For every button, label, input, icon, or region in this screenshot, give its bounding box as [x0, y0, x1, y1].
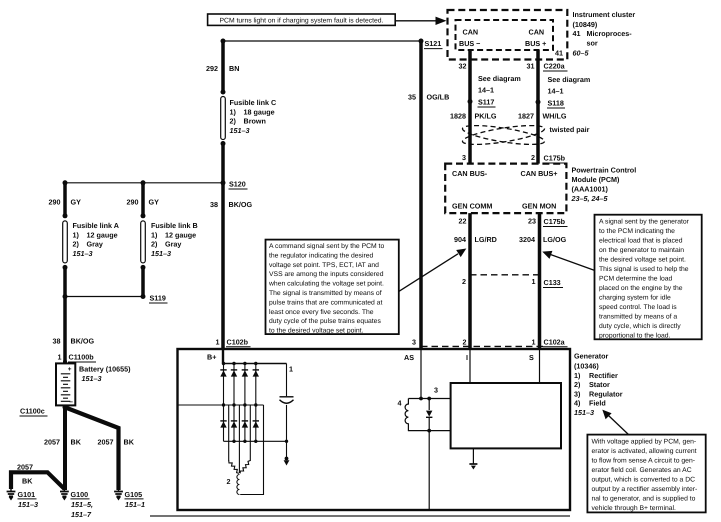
battery symbol (10655) [56, 360, 75, 410]
note box: with voltage applied [587, 435, 705, 513]
svg-text:32: 32 [459, 62, 467, 71]
label fusible link C [230, 98, 277, 135]
svg-text:sor: sor [587, 39, 598, 48]
svg-text:twisted pair: twisted pair [550, 125, 590, 134]
svg-text:151–3: 151–3 [151, 249, 171, 258]
svg-text:2057: 2057 [17, 463, 33, 472]
svg-text:904: 904 [454, 235, 466, 244]
rectifier bottom diode 1 [220, 421, 226, 428]
svg-text:nal to generator, and is suppl: nal to generator, and is supplied to [592, 496, 696, 503]
svg-text:12 gauge: 12 gauge [165, 230, 196, 239]
svg-text:151–3: 151–3 [82, 374, 102, 383]
svg-text:C1100b: C1100b [69, 353, 95, 362]
wire B+ into rectifier [222, 349, 224, 364]
svg-text:A command signal sent by the P: A command signal sent by the PCM to [269, 243, 384, 250]
arrow from note box to instrument cluster [396, 17, 447, 25]
svg-text:2: 2 [463, 338, 467, 347]
rectifier mid bus nodes [222, 403, 258, 406]
wire below fusible link A [63, 267, 67, 296]
instrument cluster outer dashed box [448, 10, 568, 60]
svg-text:S118: S118 [548, 99, 564, 108]
svg-text:charging system for idle: charging system for idle [599, 295, 671, 302]
svg-text:This signal is used to help th: This signal is used to help the [599, 266, 689, 273]
svg-text:(AAA1001): (AAA1001) [572, 185, 609, 194]
svg-text:BK/OG: BK/OG [229, 200, 253, 209]
svg-text:I: I [466, 353, 468, 362]
svg-text:CAN BUS+: CAN BUS+ [521, 169, 558, 178]
svg-text:Microproces-: Microproces- [587, 29, 633, 38]
svg-text:(10849): (10849) [573, 20, 598, 29]
label 2057 BK left [44, 438, 82, 447]
svg-text:CAN: CAN [463, 28, 479, 37]
capacitor 1 plates [280, 397, 294, 404]
svg-text:1828: 1828 [450, 112, 466, 121]
svg-text:G101: G101 [18, 490, 36, 499]
svg-text:3: 3 [412, 338, 416, 347]
wire 38 BK/OG to battery [63, 297, 67, 364]
label 1828 PK/LG [450, 112, 497, 121]
svg-text:1827: 1827 [518, 112, 534, 121]
svg-text:CAN: CAN [529, 28, 545, 37]
wire branch to G101 [11, 472, 65, 489]
svg-text:22: 22 [459, 217, 467, 226]
rectifier top bus nodes [222, 362, 258, 365]
rectifier mid tap bus [178, 404, 264, 406]
svg-text:C175b: C175b [544, 217, 566, 226]
svg-text:1): 1) [574, 371, 581, 380]
arrow voltage note to Field label [602, 410, 628, 435]
rectifier top bus [223, 363, 287, 365]
regulator ground [469, 448, 477, 469]
svg-text:(10346): (10346) [574, 362, 599, 371]
svg-text:14–1: 14–1 [548, 87, 564, 96]
svg-text:Rectifier: Rectifier [589, 371, 618, 380]
label 38 BK/OG left [53, 337, 95, 346]
svg-text:the regulator indicating the d: the regulator indicating the desired [269, 252, 374, 259]
svg-text:Fusible link C: Fusible link C [230, 98, 277, 107]
svg-text:Powertrain Control: Powertrain Control [572, 166, 637, 175]
label connector C220a [543, 62, 568, 72]
note box: signal sent by generator [595, 215, 702, 340]
svg-text:1): 1) [73, 230, 80, 239]
svg-text:31: 31 [527, 62, 535, 71]
stator coil 2 [237, 475, 239, 495]
svg-text:151–1: 151–1 [125, 500, 145, 509]
svg-text:38: 38 [210, 200, 218, 209]
svg-text:3): 3) [574, 389, 581, 398]
svg-text:2): 2) [230, 117, 237, 126]
svg-text:OG/LB: OG/LB [427, 93, 450, 102]
label CAN BUS minus [459, 28, 480, 49]
svg-text:1): 1) [151, 230, 158, 239]
node AS field junction [419, 397, 423, 401]
rectifier bottom diode 2 [231, 421, 237, 428]
svg-text:Gray: Gray [87, 240, 103, 249]
wire battery to G100 ground [63, 406, 67, 491]
node field diode top [427, 397, 431, 401]
svg-text:4): 4) [574, 399, 581, 408]
svg-text:BK/OG: BK/OG [71, 337, 95, 346]
svg-text:290: 290 [49, 198, 61, 207]
svg-text:LG/RD: LG/RD [475, 235, 497, 244]
stator zigzag left [229, 461, 239, 474]
svg-text:output, which is converted to: output, which is converted to a DC [592, 477, 696, 484]
label 904 LG/RD [454, 235, 497, 244]
svg-text:C1100c: C1100c [20, 407, 45, 416]
ground G100 [60, 489, 69, 501]
svg-text:151–3: 151–3 [574, 408, 594, 417]
label Powertrain Control Module callout [571, 166, 637, 204]
label 3204 LG/OG [519, 235, 567, 244]
rectifier bottom diode 3 [242, 421, 248, 428]
svg-text:+: + [68, 366, 72, 373]
svg-text:Field: Field [589, 399, 606, 408]
label S119 [149, 294, 168, 304]
label See diagram 14-1 S117 [478, 74, 521, 107]
label connector C133 [543, 278, 563, 288]
svg-text:C220a: C220a [544, 62, 566, 71]
label S121 [424, 39, 443, 49]
wire AS inside generator [420, 349, 422, 399]
svg-text:WH/LG: WH/LG [543, 112, 567, 121]
stator tap lines [229, 405, 251, 473]
svg-text:CAN BUS-: CAN BUS- [452, 169, 488, 178]
svg-text:151–3: 151–3 [18, 500, 38, 509]
label CAN BUS plus [525, 28, 546, 49]
svg-text:G105: G105 [125, 490, 143, 499]
svg-text:S: S [529, 353, 534, 362]
arrow command signal to LG/RD wire [399, 249, 467, 292]
svg-text:35: 35 [408, 93, 416, 102]
svg-text:Fusible link B: Fusible link B [151, 221, 198, 230]
svg-text:2: 2 [462, 277, 466, 286]
label Instrument cluster callout [573, 10, 636, 58]
svg-text:S121: S121 [425, 39, 442, 48]
wire I inside generator [469, 349, 471, 383]
svg-text:PCM turns light on if charging: PCM turns light on if charging system fa… [220, 18, 384, 25]
label S120 [229, 180, 248, 190]
svg-text:−: − [69, 399, 73, 406]
capacitor ground stub [284, 441, 290, 465]
svg-text:GY: GY [149, 198, 160, 207]
svg-text:2): 2) [151, 240, 158, 249]
wire GY branch A upper [63, 183, 67, 216]
svg-text:S119: S119 [150, 294, 166, 303]
wire 3204 LG/OG PCM to generator [538, 213, 542, 349]
node S120 junction [221, 180, 226, 185]
svg-text:Generator: Generator [574, 352, 609, 361]
node junction left bus A [63, 180, 68, 185]
label 290 GY branch B [127, 198, 160, 207]
wire below fusible link B [141, 267, 145, 296]
svg-text:BUS −: BUS − [459, 39, 480, 48]
wire cluster pin 31 stub [536, 50, 540, 164]
svg-text:erator is activated, allowing: erator is activated, allowing current [592, 448, 697, 455]
generator box [178, 349, 571, 510]
svg-text:2: 2 [531, 153, 535, 162]
svg-text:PCM determine the load: PCM determine the load [599, 276, 673, 283]
svg-text:2): 2) [73, 240, 80, 249]
svg-text:23–5, 24–5: 23–5, 24–5 [571, 194, 609, 203]
svg-text:1: 1 [532, 338, 536, 347]
svg-text:B+: B+ [207, 353, 216, 362]
label See diagram 14-1 S118 [547, 75, 590, 108]
field coil 4 [405, 399, 408, 431]
wire cluster pin 32 stub [468, 50, 472, 164]
svg-text:151–7: 151–7 [71, 510, 92, 519]
svg-text:1: 1 [289, 365, 293, 374]
svg-text:290: 290 [127, 198, 139, 207]
rectifier bottom diode 4 [253, 421, 259, 428]
svg-text:A signal sent by the generator: A signal sent by the generator [599, 219, 690, 226]
svg-text:proportional to the load.: proportional to the load. [599, 333, 671, 340]
svg-text:to flow from sense A circuit t: to flow from sense A circuit to gen- [592, 458, 696, 465]
label C1100c [20, 407, 48, 417]
svg-text:duty cycle, which is directly: duty cycle, which is directly [599, 323, 681, 330]
wire 35 OG/LB vertical [419, 41, 423, 348]
svg-text:The signal is transmitted by m: The signal is transmitted by means of [269, 290, 382, 297]
regulator box 3 [451, 383, 561, 448]
svg-text:electrical load that is placed: electrical load that is placed [599, 238, 683, 245]
svg-text:pulse trains that are communic: pulse trains that are communicated at [269, 299, 382, 306]
svg-text:G100: G100 [71, 490, 89, 499]
svg-text:transmitted by means of a: transmitted by means of a [599, 314, 677, 321]
PCM dashed box [445, 164, 566, 214]
svg-text:See diagram: See diagram [478, 74, 521, 83]
label connector C102a [543, 338, 568, 347]
label fusible link B [151, 221, 198, 258]
wire 904 LG/RD PCM to generator [468, 213, 472, 349]
svg-text:With voltage applied by PCM, g: With voltage applied by PCM, gen- [592, 439, 697, 446]
scan artifact line at page bottom [150, 515, 570, 517]
rectifier bottom bus nodes [232, 440, 288, 443]
svg-text:S120: S120 [229, 180, 246, 189]
label 292 BN [206, 64, 239, 73]
svg-text:VSS are among the inputs consi: VSS are among the inputs considered [269, 271, 384, 278]
connector C102a dashed line [421, 345, 545, 347]
ground G101 [7, 489, 16, 501]
svg-text:BK: BK [71, 438, 82, 447]
label pin 1 C1100b [58, 353, 97, 363]
svg-text:151–5,: 151–5, [71, 500, 93, 509]
twisted pair symbol [461, 122, 545, 149]
wire S inside generator [539, 349, 541, 383]
svg-text:on the generator to maintain: on the generator to maintain [599, 247, 684, 254]
wire BK/OG center vertical to generator B+ [221, 144, 225, 350]
label 35 OG/LB [408, 93, 449, 102]
stator return line [240, 405, 263, 495]
wire horizontal bus at S120 level to left fusible links [65, 182, 223, 184]
wire GY branch B upper [141, 183, 145, 216]
svg-text:output by a rectifier assembly: output by a rectifier assembly inter- [592, 486, 698, 493]
rectifier top diode 3 [242, 370, 248, 377]
svg-text:speed control. The load is: speed control. The load is [599, 304, 677, 311]
svg-text:60–5: 60–5 [573, 49, 590, 58]
svg-text:1: 1 [532, 277, 536, 286]
svg-text:3204: 3204 [519, 235, 535, 244]
label 38 BK/OG center [210, 200, 252, 209]
rectifier top diode 1 [220, 370, 226, 377]
label 2057 BK to G101 [17, 463, 33, 486]
label G101 [18, 490, 39, 509]
svg-text:2): 2) [574, 380, 581, 389]
svg-text:4: 4 [398, 399, 402, 408]
svg-text:41: 41 [573, 29, 581, 38]
wire branch battery to G105 [66, 408, 119, 491]
svg-text:LG/OG: LG/OG [543, 235, 567, 244]
svg-text:C102b: C102b [227, 338, 249, 347]
svg-text:placed on the engine by the: placed on the engine by the [599, 285, 683, 292]
svg-text:the desired voltage set point.: the desired voltage set point. [599, 257, 686, 264]
svg-text:2: 2 [227, 477, 231, 486]
svg-text:Battery (10655): Battery (10655) [79, 365, 131, 374]
node S121 right junction [419, 39, 424, 44]
arrow generator signal to LG/OG wire [542, 251, 594, 271]
capacitor 1 lead upper [286, 364, 288, 397]
capacitor 1 lead lower [286, 405, 288, 441]
label 290 GY branch A [49, 198, 82, 207]
field diode [426, 399, 432, 431]
svg-text:Brown: Brown [244, 117, 266, 126]
svg-text:Instrument cluster: Instrument cluster [573, 10, 636, 19]
field top rail [408, 398, 450, 400]
svg-text:1): 1) [230, 107, 237, 116]
svg-text:AS: AS [404, 353, 414, 362]
ground G105 [114, 489, 123, 501]
svg-text:292: 292 [206, 64, 218, 73]
note box: PCM turns light on [208, 14, 396, 25]
node S119 right [141, 294, 146, 299]
instrument cluster inner dashed box [456, 20, 554, 50]
label 2057 BK right [98, 438, 135, 447]
svg-text:Gray: Gray [165, 240, 181, 249]
connector C133 dashed line [470, 274, 540, 276]
label G100 [71, 490, 93, 519]
svg-text:GEN MON: GEN MON [522, 202, 556, 211]
svg-text:23: 23 [528, 217, 536, 226]
svg-text:voltage set point. TPS, ECT, I: voltage set point. TPS, ECT, IAT and [269, 262, 379, 269]
svg-text:38: 38 [53, 337, 61, 346]
svg-text:to the desired voltage set poi: to the desired voltage set point. [269, 328, 364, 335]
svg-text:GY: GY [71, 198, 82, 207]
rectifier top diode 2 [231, 370, 237, 377]
svg-text:Stator: Stator [589, 380, 610, 389]
svg-text:BUS +: BUS + [525, 39, 546, 48]
svg-text:least once every five seconds.: least once every five seconds. The [269, 309, 374, 316]
svg-text:151–3: 151–3 [73, 249, 93, 258]
rectifier diode columns upper [224, 364, 256, 406]
node field diode bottom [427, 429, 431, 433]
label pin 1 C102b [216, 338, 251, 347]
node S119 left [63, 294, 68, 299]
svg-text:BN: BN [229, 64, 239, 73]
svg-text:3: 3 [462, 153, 466, 162]
field bottom rail [408, 430, 451, 432]
label G105 [125, 490, 146, 509]
node splice S117 [468, 99, 473, 104]
fusible link A symbol [63, 213, 68, 270]
svg-text:See diagram: See diagram [548, 75, 591, 84]
svg-text:1: 1 [58, 353, 62, 362]
svg-text:BK: BK [22, 477, 33, 486]
svg-text:GEN COMM: GEN COMM [452, 202, 492, 211]
label Battery (10655) [79, 365, 131, 384]
label connector C175b bottom [543, 217, 568, 227]
svg-text:BK: BK [124, 438, 135, 447]
svg-text:14–1: 14–1 [478, 86, 494, 95]
rectifier top diode 4 [253, 370, 259, 377]
svg-text:duty cycle of the pulse trains: duty cycle of the pulse trains equates [269, 318, 381, 325]
svg-text:erator field coil. Generates a: erator field coil. Generates an AC [592, 467, 692, 474]
wire field to case bottom [428, 431, 430, 510]
wire 292 BN vertical [221, 41, 225, 92]
svg-text:151–3: 151–3 [230, 126, 250, 135]
fusible link C symbol [221, 90, 226, 147]
fusible link B symbol [141, 213, 146, 270]
svg-text:1: 1 [216, 338, 220, 347]
node splice S118 [536, 100, 541, 105]
svg-text:C133: C133 [544, 278, 561, 287]
svg-text:PK/LG: PK/LG [475, 112, 497, 121]
rectifier diode columns lower [224, 405, 256, 441]
svg-text:41: 41 [555, 48, 563, 57]
svg-text:when calculating the voltage s: when calculating the voltage set point. [268, 281, 384, 288]
wire: splice S121 horizontal bus [223, 40, 421, 42]
svg-text:to the PCM indicating the: to the PCM indicating the [599, 228, 675, 235]
svg-text:Regulator: Regulator [589, 389, 623, 398]
svg-text:18 gauge: 18 gauge [244, 107, 275, 116]
svg-text:2057: 2057 [98, 438, 114, 447]
node junction left bus B [141, 180, 146, 185]
svg-text:Module (PCM): Module (PCM) [572, 175, 621, 184]
svg-text:vehicle through B+ terminal.: vehicle through B+ terminal. [592, 505, 677, 512]
rectifier bottom bus [224, 440, 287, 442]
svg-text:C175b: C175b [544, 154, 566, 163]
note box: command signal [266, 240, 399, 335]
svg-text:3: 3 [434, 386, 438, 395]
label connector C175b top [543, 154, 568, 164]
svg-text:Fusible link A: Fusible link A [73, 221, 119, 230]
node S121 left junction [221, 39, 226, 44]
label 1827 WH/LG [518, 112, 567, 121]
stator zigzag right [240, 461, 250, 474]
label Generator callout [574, 352, 623, 418]
wire splice S119 horizontal [65, 296, 143, 298]
svg-text:12 gauge: 12 gauge [87, 230, 118, 239]
label fusible link A [73, 221, 119, 258]
svg-text:C102a: C102a [544, 338, 566, 347]
svg-text:2057: 2057 [44, 438, 60, 447]
svg-text:S117: S117 [478, 98, 494, 107]
